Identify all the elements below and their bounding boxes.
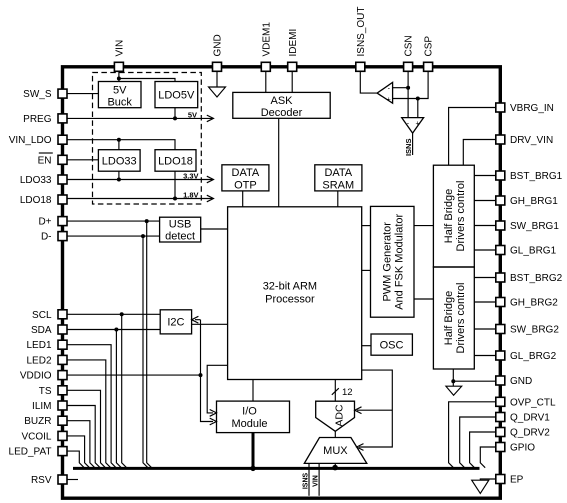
svg-text:Half Bridge: Half Bridge [443,291,455,345]
wire SW_BRG1 [474,225,500,227]
wire BST_BRG1 [474,175,500,177]
svg-text:DRV_VIN: DRV_VIN [510,135,553,146]
chip outer border [63,67,501,498]
svg-text:1.8V: 1.8V [183,191,198,200]
svg-text:ISNS: ISNS [404,139,413,157]
wire ARM select to ADC and MUX [359,370,392,447]
wire LDO33 output drop [118,171,120,180]
wire GH_BRG2 [474,301,500,303]
wire SDA to I2C [63,329,161,331]
wire SCL drop to bus [122,314,127,467]
svg-text:LED1: LED1 [26,340,51,351]
pin Q_DRV1 [496,413,505,422]
block DATA OTP [222,165,269,191]
wire LED2 drop to bus [63,360,111,468]
svg-text:Q_DRV1: Q_DRV1 [510,413,550,424]
pin GL_BRG1 [496,246,505,255]
wire MUX output to analog bus [334,463,336,468]
wire D- drop to bus [143,236,148,468]
svg-text:D-: D- [41,232,52,243]
wire PREG 5V rail [63,117,214,119]
wire LDO18 1.8V rail [63,198,214,200]
svg-text:GH_BRG2: GH_BRG2 [510,298,558,309]
wire SCL to I2C [63,313,161,315]
svg-text:GL_BRG1: GL_BRG1 [510,246,557,257]
svg-text:PWM Generator: PWM Generator [381,222,393,302]
wire EN to LDO33 [63,159,99,161]
block LDO18 [155,150,196,172]
ground symbol EP [472,480,489,493]
svg-text:Q_DRV2: Q_DRV2 [510,428,550,439]
block Half Bridge Drivers control 2 [433,267,474,369]
wire half bridge 2 to GND pin and ground [453,369,500,386]
pin LDO18 [58,195,67,204]
analog bus thick [73,467,480,470]
pin VBRG_IN [496,103,505,112]
svg-text:PREG: PREG [23,114,52,125]
pin LDO33 [58,175,67,184]
wire GH_BRG1 [474,200,500,202]
svg-text:LDO33: LDO33 [102,155,137,167]
arrowhead into ADC [355,407,362,414]
arrowhead 3.3V rail [207,176,214,183]
svg-text:TS: TS [39,386,52,397]
wire ADC to MUX [334,431,336,437]
comparator U2 ISNS [402,118,424,134]
wire SW_S to 5V Buck [63,93,99,95]
svg-text:RSV: RSV [31,475,52,486]
pin SDA [58,325,67,334]
wire SW_BRG2 [474,328,500,330]
pin VIN [114,62,123,71]
svg-text:ADC: ADC [334,404,346,427]
wire PWM to half bridge 2 [414,298,433,300]
wire ARM to IO module [207,365,227,413]
svg-text:Buck: Buck [107,97,132,109]
junction dot SDA [114,328,118,332]
block ADC pentagon [316,401,355,431]
svg-text:MUX: MUX [323,445,348,457]
wire PWM to half bridge 1 [414,225,433,227]
wire SDA drop to bus [116,330,121,468]
pin VCOIL [58,431,67,440]
svg-text:Half Bridge: Half Bridge [443,189,455,243]
pin Q_DRV2 [496,428,505,437]
svg-text:BST_BRG2: BST_BRG2 [510,273,563,284]
wire D- to USB detect [63,235,160,237]
wire GL_BRG2 [474,355,500,357]
block OSC [371,334,412,355]
svg-text:LDO5V: LDO5V [158,90,195,102]
block DATA SRAM [315,165,362,191]
wire USB detect to ARM [201,228,228,230]
wire IDEMI to ASK Decoder [291,68,293,92]
junction dot LDO5V on 5V rail [173,116,177,120]
pin GND top [213,62,222,71]
wire GL_BRG1 [474,249,500,251]
block ASK Decoder [233,92,330,118]
ground symbol half bridge [446,386,462,395]
text Half Bridge Drivers control 2 rotated [443,283,467,354]
wire CSP to comparator plus input [393,98,418,100]
pin VDDIO [58,371,67,380]
label VIN bottom rotated [312,475,319,487]
pin GH_BRG2 [496,298,505,307]
pin D- [58,232,67,241]
wire LDO33 3.3V rail [63,179,214,181]
junction dot IO module on bus [250,466,255,471]
block PWM Generator And FSK Modulator [371,206,415,317]
junction dot MUX on bus [332,465,338,471]
svg-text:OSC: OSC [380,339,404,351]
svg-text:Module: Module [231,418,267,430]
wire ARM to OSC [362,345,371,347]
svg-text:DATA: DATA [232,167,260,179]
svg-text:SRAM: SRAM [322,180,354,192]
slash bus width mark [332,388,339,395]
wire VDDIO net [63,374,201,376]
pin ILIM [58,401,67,410]
block I/O Module [217,401,290,433]
pin ISNS_OUT [356,62,365,71]
svg-text:+: + [416,121,420,128]
wire DATA OTP to ARM [242,191,244,207]
svg-text:ASK: ASK [270,95,293,107]
svg-text:5V: 5V [188,111,197,120]
svg-text:Decoder: Decoder [261,107,303,119]
wire VCOIL drop to bus [63,436,90,468]
text ADC rotated [334,404,346,427]
wire LDO18 output drop [174,171,176,199]
pin LED_PAT [58,447,67,456]
svg-text:5V: 5V [113,85,127,97]
wire EP to ground [480,479,500,480]
pin PREG [58,114,67,123]
svg-text:USB: USB [169,219,192,231]
svg-text:BUZR: BUZR [24,416,51,427]
pin CSP [424,62,433,71]
svg-text:VIN_LDO: VIN_LDO [9,135,52,146]
svg-text:BST_BRG1: BST_BRG1 [510,171,563,182]
block 5V Buck [98,82,141,108]
wire I2C to ARM [192,323,228,325]
pin D+ [58,217,67,226]
arrowhead into MUX [357,444,364,451]
svg-text:32-bit ARM: 32-bit ARM [263,281,317,293]
pin BST_BRG1 [496,171,505,180]
wire VIN sense to bottom [318,463,320,495]
pin SW_BRG2 [496,325,505,334]
pin GH_BRG1 [496,196,505,205]
svg-text:D+: D+ [38,217,51,228]
svg-text:12: 12 [342,387,353,398]
pin VIN_LDO [58,135,67,144]
junction dot VDDIO [199,373,203,377]
wire CSN to comparator minus input [393,87,409,89]
svg-text:Drivers control: Drivers control [455,283,467,354]
wire Q_DRV2 drop to bus [470,432,501,468]
pin SCL [58,310,67,319]
svg-text:SCL: SCL [32,310,52,321]
wire BUZR drop to bus [63,421,95,468]
wire ARM to IO module top [252,380,254,402]
comparator U1 current sense [377,82,393,103]
pin TS [58,386,67,395]
svg-text:LED2: LED2 [26,355,51,366]
wire VBRG_IN to half bridge 1 [449,108,501,166]
svg-text:VDDIO: VDDIO [20,371,52,382]
svg-text:GND: GND [510,376,532,387]
dashed power block boundary [93,73,202,205]
svg-text:VDEM1: VDEM1 [261,22,272,57]
wire D+ to USB detect [63,220,160,222]
svg-text:SW_BRG2: SW_BRG2 [510,325,559,336]
block MUX trapezoid [304,438,367,464]
pin LED2 [58,355,67,364]
svg-text:I/O: I/O [242,406,257,418]
pin GND right [496,376,505,385]
wire VIN_LDO feed [63,140,176,150]
wire D+ drop to bus [147,221,152,468]
wire GND top pin to ground [216,68,218,87]
svg-text:And FSK Modulator: And FSK Modulator [393,213,405,309]
wire LDO5V output drop [174,108,176,119]
wire Q_DRV1 drop to bus [460,417,501,468]
text Half Bridge Drivers control 1 rotated [443,181,467,252]
pin VDEM1 [261,62,270,71]
block LDO33 [98,150,140,172]
wire DRV_VIN to half bridge 1 [463,140,500,166]
svg-text:ILIM: ILIM [32,401,51,412]
arrowhead ARM into IO module [210,410,217,417]
svg-text:LDO18: LDO18 [20,195,52,206]
svg-text:IDEMI: IDEMI [288,29,299,57]
svg-text:GH_BRG1: GH_BRG1 [510,196,558,207]
svg-text:VBRG_IN: VBRG_IN [510,103,554,114]
pin GPIO [496,443,505,452]
wire ILIM drop to bus [63,406,101,468]
svg-text:I2C: I2C [167,317,184,329]
wire TS drop to bus [63,390,106,467]
pin RSV [58,475,67,484]
block I2C [160,310,191,334]
wire VDDIO vertical to I2C and IO module [195,320,213,422]
wire BST_BRG2 [474,277,500,279]
svg-text:+: + [387,97,391,104]
svg-text:3.3V: 3.3V [183,172,198,181]
wire GPIO drop to bus [480,447,500,468]
ground symbol top GND [209,87,226,97]
junction dot VIN_LDO branch [117,138,121,142]
junction dot CSN input [406,86,410,90]
svg-text:VIN: VIN [115,40,126,57]
wire ISNS comparator output [412,133,414,155]
block 32-bit ARM Processor [228,207,362,380]
wire LED1 drop to bus [63,345,117,468]
wire VIN to 5V Buck and LDO5V [119,68,175,82]
svg-text:LED_PAT: LED_PAT [9,447,52,458]
junction dot LDO33 on 3.3V rail [117,178,121,182]
junction dot SCL [120,312,124,316]
svg-text:Processor: Processor [265,294,315,306]
pin EN [58,155,67,164]
svg-text:SW_BRG1: SW_BRG1 [510,221,559,232]
svg-text:EP: EP [510,475,524,486]
text PWM Generator And FSK Modulator rotated [381,213,405,309]
label ISNS comparator output rotated [404,139,413,157]
junction dot D- [141,234,145,238]
wire ARM to PWM upper [362,225,371,227]
pin CSN [404,62,413,71]
svg-text:detect: detect [165,231,195,243]
pin GL_BRG2 [496,351,505,360]
pin BST_BRG2 [496,273,505,282]
pin BUZR [58,416,67,425]
svg-text:LDO33: LDO33 [20,175,52,186]
svg-text:OVP_CTL: OVP_CTL [510,397,556,408]
svg-text:SDA: SDA [31,325,52,336]
pin EP [496,475,505,484]
svg-text:OTP: OTP [234,180,257,192]
block LDO5V [155,82,198,108]
svg-text:ISNS: ISNS [302,473,309,490]
wire ASK Decoder to ARM [278,118,280,207]
svg-text:GND: GND [213,34,224,56]
wire IO module to bus thick [252,433,255,467]
arrowhead 5V rail [207,115,214,122]
svg-text:VCOIL: VCOIL [21,431,51,442]
wire RSV stub [63,479,79,481]
junction dot VIN branch [117,77,121,81]
svg-text:EN: EN [38,155,52,166]
block Half Bridge Drivers control 1 [433,165,474,267]
svg-text:CSN: CSN [404,35,415,56]
wire ISNS sense to bottom [308,463,310,495]
arrowhead into I2C [192,316,199,323]
svg-text:VIN: VIN [312,475,319,487]
svg-text:GL_BRG2: GL_BRG2 [510,351,557,362]
arrowhead into IO module lower [210,418,217,425]
svg-text:DATA: DATA [324,167,352,179]
junction dot HB2 ground [451,379,455,383]
junction dot CSP input [416,97,420,101]
pin SW_S [58,89,67,98]
wire VDEM1 to ASK Decoder [265,68,267,92]
arrowhead 1.8V rail [207,195,214,202]
svg-text:ISNS_OUT: ISNS_OUT [356,6,367,56]
wire OVP_CTL drop to bus [449,402,501,468]
wire DATA SRAM to ARM [337,191,339,207]
junction dot D+ [145,219,149,223]
svg-text:LDO18: LDO18 [158,155,193,167]
wire ISNS_OUT to comparator output [360,68,377,93]
pin IDEMI [288,62,297,71]
pin LED1 [58,340,67,349]
svg-text:Drivers control: Drivers control [455,181,467,252]
pin SW_BRG1 [496,221,505,230]
junction dot LDO18 on 1.8V rail [173,197,177,201]
svg-text:SW_S: SW_S [23,89,52,100]
wire ARM to PWM lower [362,269,371,271]
wire branch to ADC [357,409,392,411]
svg-text:GPIO: GPIO [510,443,535,454]
block USB detect [160,217,201,242]
label ISNS bottom rotated [302,473,309,490]
svg-text:CSP: CSP [424,36,435,57]
wire CSN vertical [407,68,409,118]
wire LED_PAT drop to bus [63,451,85,468]
pin DRV_VIN [496,135,505,144]
wire CSP vertical [418,68,428,118]
wire ARM to ADC 12 bit [334,380,336,402]
pin OVP_CTL [496,397,505,406]
